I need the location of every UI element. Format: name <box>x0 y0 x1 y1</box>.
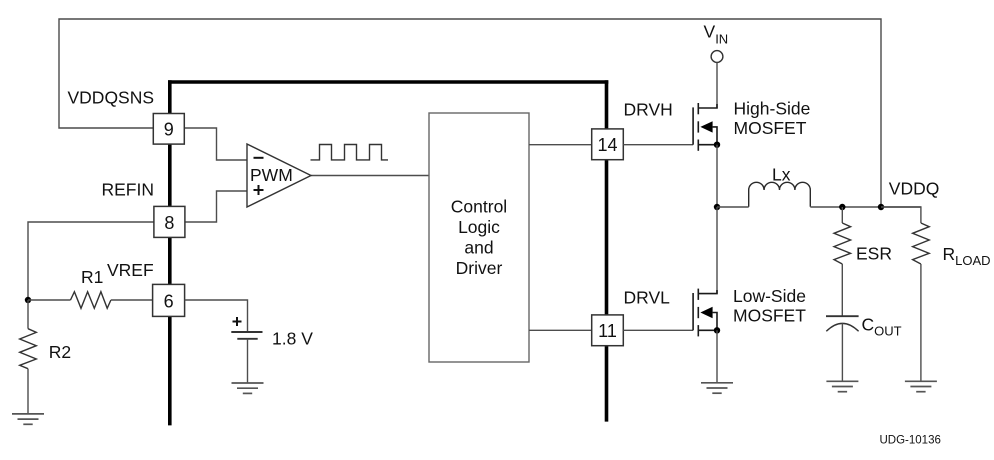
svg-text:11: 11 <box>598 321 617 341</box>
op-amp U1 PWM comparator <box>247 144 311 207</box>
wire battery to ground <box>247 339 249 383</box>
wire control block to pin 14 <box>529 144 592 146</box>
svg-text:Low-Side: Low-Side <box>733 286 806 306</box>
svg-text:DRVH: DRVH <box>624 100 673 120</box>
battery plus sign <box>233 317 242 326</box>
wire pin8 to R1/R2 node <box>28 222 154 300</box>
transistor Q2 low-side MOSFET <box>693 289 717 337</box>
transistor Q1 body arrow <box>700 121 712 132</box>
wire low-side source to ground <box>716 330 718 383</box>
svg-text:R2: R2 <box>49 342 71 362</box>
control logic block U2 <box>429 113 529 362</box>
wire RLOAD to ground <box>920 264 922 381</box>
wire VDDQSNS feedback loop <box>59 19 881 207</box>
wire pin 11 to low-side gate <box>623 329 693 331</box>
svg-text:MOSFET: MOSFET <box>733 306 806 326</box>
wire ESR branch top <box>841 207 843 223</box>
svg-text:VDDQSNS: VDDQSNS <box>68 88 155 108</box>
node A R1/R2 junction <box>25 297 31 303</box>
pin 9 box <box>153 114 184 145</box>
wire thick bus left vertical <box>168 80 172 425</box>
wire pin8 to PWM non-inverting input <box>184 191 247 222</box>
wire switch node to low-side drain <box>716 207 718 294</box>
node ESR junction <box>839 204 845 210</box>
wire thick bus horizontal <box>168 80 608 84</box>
svg-text:1.8 V: 1.8 V <box>272 329 313 349</box>
svg-text:MOSFET: MOSFET <box>734 118 807 138</box>
wire VDDQ to RLOAD <box>881 207 921 223</box>
node VDDQ junction <box>878 204 884 210</box>
svg-text:Control: Control <box>451 197 507 217</box>
transistor Q2 body arrow <box>700 307 712 318</box>
wire thick bus right vertical <box>605 80 609 421</box>
battery V1 bottom plate <box>237 338 257 340</box>
resistor R1 <box>71 292 111 309</box>
node low-side source junction <box>714 327 720 333</box>
svg-text:Driver: Driver <box>456 258 503 278</box>
svg-text:6: 6 <box>164 291 174 311</box>
inductor Lx <box>749 182 811 206</box>
node switch node junction <box>714 204 720 210</box>
svg-text:REFIN: REFIN <box>102 180 155 200</box>
control logic block text <box>451 197 507 279</box>
capacitor COUT top plate <box>826 315 859 317</box>
wire node to R2 <box>27 300 29 329</box>
resistor ESR <box>834 223 851 264</box>
wire node to R1 <box>28 299 71 301</box>
wire high-side source to switch node <box>716 145 718 207</box>
resistor R2 <box>20 329 37 369</box>
wire R2 to ground <box>27 369 29 414</box>
svg-text:14: 14 <box>597 135 617 155</box>
svg-text:8: 8 <box>164 213 174 233</box>
svg-text:UDG-10136: UDG-10136 <box>880 435 941 447</box>
wire R1 to pin6 <box>111 299 153 301</box>
node high-side source junction <box>714 142 720 148</box>
ground under R2 <box>12 414 44 424</box>
svg-text:R1: R1 <box>81 267 103 287</box>
ground under COUT <box>826 381 858 391</box>
transistor Q1 high-side MOSFET <box>693 103 717 151</box>
svg-text:DRVL: DRVL <box>624 288 671 308</box>
ground under battery <box>232 383 264 393</box>
op-amp plus sign <box>254 185 264 195</box>
svg-text:Logic: Logic <box>458 217 500 237</box>
wire switch node to inductor <box>717 206 749 208</box>
wire pin 14 to high-side gate <box>623 144 693 146</box>
capacitor COUT curved plate <box>826 323 858 331</box>
resistor RLOAD <box>913 223 930 264</box>
svg-text:9: 9 <box>164 119 174 139</box>
node VIN terminal <box>711 51 723 63</box>
pin 14 box <box>592 129 624 160</box>
pin 8 box <box>154 206 185 237</box>
PWM square wave symbol <box>311 145 389 160</box>
wire control block to pin 11 <box>529 329 592 331</box>
svg-text:VREF: VREF <box>107 260 154 280</box>
pin 11 box <box>592 315 624 346</box>
svg-text:ESR: ESR <box>856 244 892 264</box>
wire COUT to ground <box>841 323 843 381</box>
svg-text:and: and <box>464 238 493 258</box>
wire pin9 to PWM inverting input <box>184 128 247 160</box>
wire inductor to output node <box>810 206 921 208</box>
pin 6 box <box>153 284 185 316</box>
svg-text:PWM: PWM <box>250 165 293 185</box>
svg-text:High-Side: High-Side <box>734 99 811 119</box>
wire VIN to high-side drain <box>716 63 718 109</box>
svg-text:VDDQ: VDDQ <box>889 179 940 199</box>
ground under RLOAD <box>905 381 937 391</box>
svg-text:Lx: Lx <box>772 165 791 185</box>
wire ESR to COUT <box>841 264 843 316</box>
battery V1 top plate <box>231 331 262 333</box>
op-amp minus sign <box>254 157 264 159</box>
wire PWM output to control block <box>311 175 429 177</box>
ground under low-side MOSFET <box>701 383 733 393</box>
wire pin6 to battery <box>185 300 248 332</box>
